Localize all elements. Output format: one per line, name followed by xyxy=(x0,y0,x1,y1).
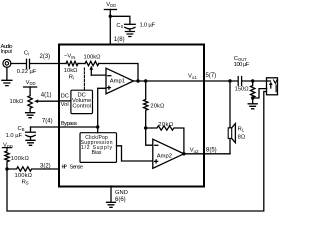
power VDD (top) xyxy=(104,9,116,11)
ground (CS) xyxy=(125,32,134,37)
svg-text:1.0 µF: 1.0 µF xyxy=(140,23,156,29)
resistor 20k vertical xyxy=(144,81,148,128)
ground (input jack) xyxy=(2,67,12,85)
svg-text:6(6): 6(6) xyxy=(115,197,126,203)
svg-text:Amp1: Amp1 xyxy=(110,78,125,84)
svg-text:1(8): 1(8) xyxy=(114,37,125,43)
wire wiper to Amp1 minus xyxy=(91,74,106,76)
svg-text:100kΩ: 100kΩ xyxy=(11,156,30,162)
ground (pot) xyxy=(26,113,35,118)
svg-text:Bias: Bias xyxy=(92,150,102,156)
svg-text:DC: DC xyxy=(61,94,69,100)
wire GND pin 6(6) xyxy=(110,186,112,202)
resistor RS 100k xyxy=(7,167,59,171)
svg-text:4(1): 4(1) xyxy=(41,92,52,98)
capacitor CS 1.0uF xyxy=(125,23,136,25)
svg-text:Sense: Sense xyxy=(70,165,83,171)
wire feedback to output xyxy=(99,64,138,81)
svg-text:Ri: Ri xyxy=(69,75,74,81)
wire to Amp2 minus xyxy=(146,128,153,145)
svg-text:Vol: Vol xyxy=(61,102,69,108)
svg-text:8Ω: 8Ω xyxy=(238,134,246,140)
headphone jack J2 xyxy=(267,78,278,95)
svg-text:CB: CB xyxy=(18,126,25,132)
resistor 100k pullup xyxy=(5,148,9,169)
svg-text:VDD: VDD xyxy=(3,143,13,149)
svg-text:HP: HP xyxy=(62,165,68,171)
node dot VDD xyxy=(109,15,112,18)
box DC Volume Control xyxy=(71,90,93,113)
wire down to CB xyxy=(30,127,32,132)
wire to CS xyxy=(110,16,130,24)
wire Ci to pin 2(3) xyxy=(30,63,66,65)
wire COUT to jack xyxy=(242,80,271,82)
node dot Amp2 output xyxy=(182,152,185,155)
svg-text:5(7): 5(7) xyxy=(206,73,217,79)
resistor 20k horizontal xyxy=(146,126,184,154)
svg-text:RS: RS xyxy=(22,179,29,185)
power VDD (pot) xyxy=(24,86,37,88)
svg-text:3(2): 3(2) xyxy=(40,163,51,169)
node dot HP sense xyxy=(5,167,8,170)
svg-text:VDD: VDD xyxy=(106,2,116,8)
svg-text:20kΩ: 20kΩ xyxy=(158,122,174,128)
wire Bypass pin 7(4) xyxy=(31,126,98,128)
wire Vo2 output xyxy=(184,153,230,155)
svg-text:VDD: VDD xyxy=(26,80,36,86)
node dot bypass xyxy=(96,125,99,128)
connector J1 audio input xyxy=(3,59,11,67)
svg-text:1.0 µF: 1.0 µF xyxy=(6,133,23,139)
svg-text:10kΩ: 10kΩ xyxy=(10,99,24,105)
resistor Ri 10k zigzag xyxy=(66,61,78,65)
wire DC Vol pin 4(1) xyxy=(37,100,59,102)
capacitor Ci 0.22uF xyxy=(27,59,30,68)
box Click/Pop Suppression xyxy=(80,133,117,163)
svg-text:100kΩ: 100kΩ xyxy=(15,173,33,179)
node dot 20k junction xyxy=(144,126,147,129)
ground (150 ohm) xyxy=(248,98,257,109)
svg-text:20kΩ: 20kΩ xyxy=(150,103,165,109)
wire input to Ci xyxy=(11,63,26,65)
op-amp U1 IC outline xyxy=(59,45,204,187)
svg-text:Bypass: Bypass xyxy=(61,121,77,127)
node dot feedback xyxy=(136,79,139,82)
svg-text:2(3): 2(3) xyxy=(40,54,51,60)
node dot 20k tap xyxy=(144,79,147,82)
speaker RL xyxy=(229,81,231,128)
power VDD (HP sense) xyxy=(3,147,12,149)
wire Vo1 output xyxy=(134,80,238,82)
capacitor CB 1.0uF xyxy=(26,131,36,133)
node dot jack switch xyxy=(251,96,254,99)
node dot 150 ohm xyxy=(251,79,254,82)
svg-text:RL: RL xyxy=(238,126,245,132)
svg-text:7(4): 7(4) xyxy=(42,119,53,125)
arrowhead wiper pot 10k xyxy=(34,99,38,103)
wire switch to jack xyxy=(253,89,267,98)
svg-text:Ci: Ci xyxy=(24,50,29,56)
svg-text:Input: Input xyxy=(1,49,13,55)
wire DC Vol pin to control box xyxy=(59,100,71,102)
svg-text:100 µF: 100 µF xyxy=(234,62,250,68)
wire VDD to pin 1(8) xyxy=(109,10,111,45)
svg-text:Vo1: Vo1 xyxy=(188,74,197,80)
resistor 100k feedback xyxy=(85,61,99,65)
svg-text:0.22 µF: 0.22 µF xyxy=(17,69,37,75)
wiper arrow into 100k xyxy=(90,70,92,76)
svg-text:8(5): 8(5) xyxy=(206,147,217,153)
svg-text:GND: GND xyxy=(115,190,128,196)
wire bypass node to Click/Pop box xyxy=(97,127,99,133)
svg-text:10kΩ: 10kΩ xyxy=(64,68,78,74)
svg-text:Vo2: Vo2 xyxy=(190,148,199,154)
svg-text:CS: CS xyxy=(116,23,123,29)
svg-text:100kΩ: 100kΩ xyxy=(84,54,102,60)
ground (GND pin) xyxy=(107,202,116,207)
svg-text:Control: Control xyxy=(72,104,91,110)
wire Ri to 100k xyxy=(78,63,85,65)
potentiometer 10k xyxy=(28,87,32,112)
op-amp Amp1 xyxy=(106,68,134,94)
wire Click/Pop to Amp2 plus xyxy=(117,146,153,161)
wire Amp1 plus input to bypass node xyxy=(98,88,106,127)
op-amp Amp2 xyxy=(153,139,184,168)
resistor 150 ohm xyxy=(251,81,255,98)
dashed control link xyxy=(83,68,85,90)
capacitor COUT 100uF xyxy=(238,77,241,86)
svg-text:150Ω: 150Ω xyxy=(235,87,250,93)
wire HP sense to jack sleeve xyxy=(7,92,267,212)
svg-text:−VIN: −VIN xyxy=(64,54,75,60)
ground (CB) xyxy=(26,140,35,145)
svg-text:Amp2: Amp2 xyxy=(157,153,172,159)
node dot speaker tap xyxy=(228,79,231,82)
